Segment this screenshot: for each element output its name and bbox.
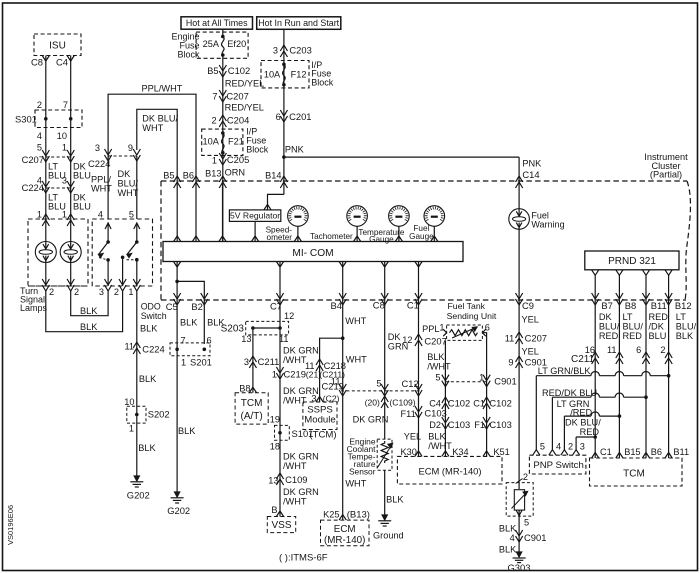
svg-text:C224: C224 (142, 344, 164, 355)
svg-text:WHT: WHT (345, 479, 366, 489)
svg-text:Switch: Switch (141, 311, 167, 321)
svg-text:B8: B8 (625, 300, 636, 311)
svg-text:BLK: BLK (386, 495, 404, 505)
svg-text:BLK: BLK (140, 324, 158, 334)
svg-text:BLU/: BLU/ (623, 322, 644, 332)
svg-text:19: 19 (270, 415, 280, 425)
svg-text:C7: C7 (270, 301, 282, 312)
svg-text:G202: G202 (127, 490, 150, 501)
svg-text:D2: D2 (429, 420, 441, 430)
svg-text:BLK: BLK (676, 331, 694, 341)
svg-text:BLK: BLK (428, 432, 446, 442)
svg-text:25A: 25A (203, 39, 220, 49)
svg-text:(A/T): (A/T) (240, 411, 262, 422)
svg-text:RED: RED (623, 331, 643, 341)
svg-text:BLU/: BLU/ (676, 322, 697, 332)
svg-text:4: 4 (510, 533, 515, 543)
svg-text:Sensor: Sensor (349, 467, 376, 477)
svg-text:1: 1 (37, 210, 42, 220)
svg-text:BLU: BLU (73, 171, 91, 181)
svg-text:Module: Module (304, 415, 335, 426)
svg-text:C12: C12 (402, 378, 419, 389)
svg-text:C4: C4 (56, 57, 68, 68)
svg-text:F11: F11 (401, 409, 416, 419)
svg-text:BLK: BLK (499, 545, 517, 555)
svg-text:ECM: ECM (334, 524, 356, 535)
svg-text:1: 1 (212, 155, 217, 165)
svg-text:Block: Block (177, 50, 200, 60)
svg-text:10A: 10A (264, 70, 281, 80)
svg-text:PPL: PPL (422, 324, 439, 334)
svg-text:C207: C207 (424, 336, 446, 347)
svg-text:BLK: BLK (80, 322, 98, 332)
svg-text:2: 2 (114, 287, 119, 297)
svg-text:S202: S202 (148, 409, 170, 420)
svg-text:BLK: BLK (139, 374, 157, 384)
svg-text:/WHT: /WHT (283, 497, 307, 507)
svg-text:Hot at All Times: Hot at All Times (186, 18, 248, 28)
svg-text:7: 7 (63, 100, 68, 110)
svg-text:BLU/: BLU/ (599, 322, 620, 332)
svg-text:B4: B4 (331, 300, 342, 311)
svg-text:DK: DK (599, 312, 613, 322)
svg-text:(C109): (C109) (389, 398, 415, 408)
svg-text:3: 3 (273, 46, 278, 56)
svg-text:RED/YEL: RED/YEL (225, 103, 264, 113)
svg-text:BLK: BLK (499, 524, 517, 534)
svg-text:B15: B15 (624, 447, 640, 457)
svg-text:( ):ITMS-6F: ( ):ITMS-6F (279, 553, 328, 564)
svg-text:4: 4 (98, 210, 103, 220)
svg-text:F21: F21 (228, 137, 244, 147)
svg-text:1: 1 (439, 323, 444, 333)
svg-text:3: 3 (580, 442, 585, 452)
svg-text:C1: C1 (407, 300, 419, 311)
svg-text:BLU: BLU (73, 202, 91, 212)
svg-text:C211: C211 (571, 354, 595, 365)
svg-text:Block: Block (311, 78, 334, 88)
svg-text:C1: C1 (473, 399, 485, 409)
svg-text:BLU: BLU (649, 331, 667, 341)
svg-text:13: 13 (241, 334, 251, 344)
svg-text:3: 3 (95, 143, 100, 153)
svg-text:B11: B11 (673, 447, 689, 457)
svg-text:B8: B8 (239, 384, 250, 394)
svg-text:LT: LT (623, 312, 633, 322)
svg-text:C207: C207 (226, 91, 248, 102)
svg-text:5V Regulator: 5V Regulator (230, 211, 280, 221)
svg-text:C205: C205 (227, 154, 249, 165)
svg-text:G202: G202 (167, 505, 190, 516)
svg-text:C219: C219 (284, 369, 306, 380)
svg-text:YEL: YEL (522, 347, 539, 357)
svg-text:F1: F1 (474, 420, 485, 430)
svg-text:9: 9 (128, 143, 133, 153)
svg-text:5: 5 (524, 518, 529, 528)
svg-text:1: 1 (128, 287, 133, 297)
svg-text:RED: RED (580, 427, 600, 437)
svg-text:9: 9 (508, 358, 513, 368)
svg-text:C8: C8 (31, 57, 43, 68)
svg-text:C1: C1 (600, 447, 612, 457)
svg-text:BLK: BLK (178, 426, 196, 436)
svg-text:(MR-140): (MR-140) (324, 535, 365, 546)
svg-text:1: 1 (62, 210, 67, 220)
svg-text:5: 5 (37, 143, 42, 153)
svg-text:C224: C224 (88, 158, 110, 169)
svg-text:VS0196E06: VS0196E06 (6, 505, 15, 545)
svg-text:RED/DK BLU: RED/DK BLU (542, 388, 597, 398)
svg-text:B6: B6 (183, 171, 194, 181)
svg-text:(20): (20) (365, 398, 380, 408)
svg-text:1: 1 (181, 358, 186, 368)
svg-text:ORN: ORN (225, 168, 245, 178)
svg-text:6: 6 (636, 345, 641, 355)
svg-text:Gauge: Gauge (409, 232, 434, 241)
svg-text:10: 10 (124, 397, 134, 407)
svg-text:11: 11 (279, 334, 289, 344)
svg-text:C204: C204 (227, 115, 249, 126)
svg-text:DK GRN: DK GRN (283, 487, 319, 497)
svg-text:RED: RED (599, 331, 619, 341)
svg-text:Fuel Tank: Fuel Tank (448, 301, 486, 311)
svg-text:ISU: ISU (49, 41, 66, 52)
svg-text:Hot In Run and Start: Hot In Run and Start (258, 18, 339, 28)
svg-text:DK GRN: DK GRN (283, 452, 319, 462)
svg-text:2: 2 (49, 287, 54, 297)
svg-text:11: 11 (607, 345, 617, 355)
svg-text:B6: B6 (651, 447, 662, 457)
svg-text:WHT: WHT (346, 355, 367, 365)
svg-text:Block: Block (246, 145, 269, 155)
svg-text:B5: B5 (163, 171, 174, 181)
svg-text:C103: C103 (448, 419, 470, 430)
svg-text:5: 5 (540, 442, 545, 452)
svg-text:C5: C5 (166, 301, 178, 312)
svg-text:K34: K34 (452, 447, 468, 457)
svg-text:2: 2 (37, 100, 42, 110)
svg-text:TCM: TCM (623, 469, 645, 480)
svg-text:10: 10 (57, 131, 67, 141)
svg-text:B12: B12 (675, 300, 692, 311)
svg-text:S301: S301 (15, 114, 37, 125)
svg-text:6: 6 (485, 323, 490, 333)
svg-text:YEL: YEL (522, 315, 539, 325)
svg-text:C109: C109 (285, 474, 307, 485)
svg-text:(B13): (B13) (347, 510, 370, 521)
svg-text:Tachometer: Tachometer (310, 232, 353, 241)
svg-text:BLK: BLK (80, 306, 98, 316)
svg-text:2: 2 (211, 116, 216, 126)
svg-text:4: 4 (556, 442, 561, 452)
svg-text:6: 6 (207, 336, 212, 346)
svg-text:BLK: BLK (427, 352, 445, 362)
svg-text:3: 3 (244, 357, 249, 367)
svg-text:PNK: PNK (285, 145, 305, 155)
svg-text:PRND 321: PRND 321 (608, 256, 656, 267)
svg-text:/WHT: /WHT (283, 355, 307, 365)
svg-text:C207: C207 (22, 154, 44, 165)
svg-text:LT GRN/BLK: LT GRN/BLK (538, 366, 592, 376)
svg-text:DK GRN: DK GRN (283, 346, 319, 356)
svg-text:6: 6 (276, 112, 281, 122)
svg-text:WHT: WHT (118, 188, 139, 198)
svg-text:BLK: BLK (138, 443, 156, 453)
svg-text:S203: S203 (221, 324, 245, 335)
svg-text:2: 2 (660, 345, 665, 355)
svg-text:5: 5 (129, 210, 134, 220)
svg-text:BLU/: BLU/ (118, 179, 139, 189)
svg-text:11: 11 (124, 342, 134, 352)
svg-text:Sending Unit: Sending Unit (447, 311, 497, 321)
svg-text:C201: C201 (289, 111, 311, 122)
svg-text:DK BLU/: DK BLU/ (142, 114, 178, 124)
svg-text:C103: C103 (489, 419, 511, 430)
svg-text:C9: C9 (522, 300, 534, 311)
svg-text:/DK: /DK (649, 322, 665, 332)
svg-text:Gauge: Gauge (369, 235, 394, 244)
svg-text:1: 1 (62, 143, 67, 153)
svg-text:C103: C103 (424, 408, 446, 419)
svg-text:DK BLU/: DK BLU/ (565, 418, 601, 428)
svg-text:C102: C102 (228, 65, 250, 76)
svg-text:BLK: BLK (180, 318, 198, 328)
svg-text:RED: RED (649, 312, 669, 322)
svg-text:11: 11 (505, 334, 515, 344)
svg-text:DK: DK (388, 332, 402, 342)
svg-text:5: 5 (376, 379, 381, 389)
svg-text:K25: K25 (323, 510, 339, 520)
svg-text:Ground: Ground (373, 531, 404, 541)
svg-text:DK GRN: DK GRN (353, 415, 389, 425)
svg-text:3: 3 (99, 287, 104, 297)
svg-text:ECM (MR-140): ECM (MR-140) (418, 466, 481, 477)
svg-text:RED/YEL: RED/YEL (225, 79, 264, 89)
svg-text:C901: C901 (524, 532, 546, 543)
svg-text:S201: S201 (190, 357, 212, 368)
svg-text:12: 12 (284, 311, 294, 321)
svg-text:LT: LT (676, 312, 686, 322)
svg-text:C224: C224 (22, 182, 44, 193)
svg-text:F12: F12 (291, 70, 307, 80)
svg-text:MI- COM: MI- COM (292, 248, 333, 259)
svg-text:3: 3 (62, 176, 67, 186)
svg-text:C207: C207 (525, 333, 547, 344)
svg-text:Lamps: Lamps (20, 303, 48, 313)
svg-text:5: 5 (435, 373, 440, 383)
svg-text:WHT: WHT (345, 316, 366, 326)
svg-text:ometer: ometer (267, 233, 293, 242)
svg-text:Warning: Warning (531, 220, 564, 230)
svg-text:PPL/WHT: PPL/WHT (142, 84, 183, 94)
svg-text:/WHT: /WHT (428, 441, 452, 451)
svg-text:K30: K30 (401, 447, 417, 457)
svg-text:(Partial): (Partial) (650, 170, 682, 180)
svg-text:C102: C102 (489, 398, 511, 409)
svg-text:B5: B5 (207, 66, 218, 76)
svg-text:C901: C901 (494, 376, 516, 387)
svg-text:B7: B7 (601, 300, 612, 311)
svg-text:WHT: WHT (142, 123, 163, 133)
svg-text:/WHT: /WHT (427, 362, 451, 372)
svg-text:C203: C203 (289, 45, 311, 56)
svg-text:PNK: PNK (522, 159, 542, 169)
svg-text:C14: C14 (522, 169, 539, 180)
svg-text:TCM: TCM (241, 398, 263, 409)
svg-text:DK: DK (118, 169, 132, 179)
svg-text:B2: B2 (191, 301, 202, 312)
svg-text:/WHT: /WHT (283, 461, 307, 471)
svg-text:C102: C102 (448, 398, 470, 409)
svg-text:C211: C211 (258, 356, 280, 367)
svg-text:7: 7 (181, 336, 186, 346)
svg-text:12: 12 (402, 335, 412, 345)
svg-text:10A: 10A (203, 137, 220, 147)
svg-text:(TCM): (TCM) (309, 430, 336, 441)
svg-text:WHT: WHT (91, 184, 112, 194)
svg-text:4: 4 (37, 131, 42, 141)
svg-text:2: 2 (523, 472, 528, 482)
svg-text:1: 1 (129, 424, 134, 434)
svg-text:1: 1 (272, 370, 277, 380)
svg-text:ODO: ODO (141, 302, 161, 312)
svg-text:B: B (271, 505, 277, 515)
svg-text:B11: B11 (651, 300, 667, 311)
svg-text:K51: K51 (493, 447, 509, 457)
svg-text:Ef20: Ef20 (227, 39, 246, 49)
svg-text:18: 18 (270, 442, 280, 452)
svg-text:B14: B14 (265, 171, 281, 181)
svg-text:C8: C8 (373, 300, 385, 311)
svg-text:PNP Switch: PNP Switch (533, 460, 583, 471)
svg-text:YEL: YEL (404, 432, 421, 442)
svg-text:C4: C4 (429, 399, 441, 409)
svg-text:VSS: VSS (271, 520, 291, 531)
svg-text:B13: B13 (205, 169, 221, 179)
svg-text:2: 2 (74, 287, 79, 297)
svg-text:2: 2 (568, 442, 573, 452)
svg-text:7: 7 (212, 92, 217, 102)
svg-text:G303: G303 (508, 562, 531, 573)
